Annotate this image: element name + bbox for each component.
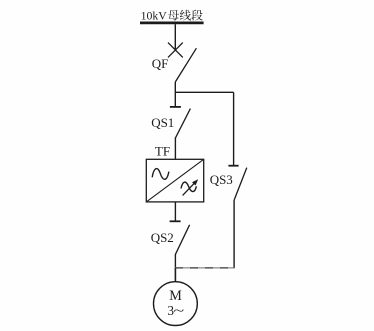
busbar	[140, 21, 204, 24]
svg-text:QS2: QS2	[151, 230, 174, 245]
wire busbar to QF	[174, 24, 176, 50]
wire converter to QS2	[174, 202, 176, 221]
disconnector QS1 blade	[176, 109, 191, 138]
wire QS3 branch vertical lower	[233, 200, 235, 268]
svg-text:TF: TF	[155, 143, 170, 158]
svg-text:QS3: QS3	[210, 172, 233, 187]
wire QS3 branch vertical upper	[233, 92, 235, 165]
disconnector QS3 blade	[234, 168, 247, 200]
wire QS1 to converter	[174, 137, 176, 159]
svg-text:~: ~	[173, 303, 184, 318]
svg-text:M: M	[169, 288, 182, 304]
svg-text:QF: QF	[152, 56, 169, 71]
converter input sine symbol	[152, 169, 169, 180]
breaker QF blade	[175, 48, 196, 82]
converter diagonal	[146, 159, 203, 202]
converter output variable frequency sine	[181, 182, 196, 191]
wire QS2 to node A	[174, 254, 176, 268]
disconnector QS1 contact tick	[170, 106, 181, 108]
motor M circle	[154, 282, 198, 326]
converter TF box	[146, 159, 203, 202]
converter arrow	[183, 179, 199, 195]
breaker QF contact X	[168, 43, 183, 58]
svg-text:10kV: 10kV	[141, 9, 168, 23]
wire node A to motor	[174, 268, 176, 282]
busbar label 10kV母线段	[141, 9, 203, 23]
disconnector QS2 blade	[176, 225, 190, 254]
disconnector QS3 contact tick	[228, 165, 238, 167]
wire branch node to QS3	[175, 91, 233, 93]
disconnector QS2 contact tick	[170, 220, 181, 222]
svg-text:QS1: QS1	[151, 115, 174, 130]
node A junction wire	[175, 267, 235, 269]
wire QF to QS1	[174, 82, 176, 106]
